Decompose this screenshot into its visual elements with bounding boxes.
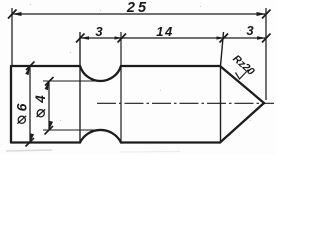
dia 6 dimension line <box>29 66 31 143</box>
svg-text:14: 14 <box>156 24 173 39</box>
cone lower slope <box>220 103 264 143</box>
svg-text:3: 3 <box>95 24 103 39</box>
faint scan smudge bottom-left <box>6 150 52 151</box>
part outline: head block <box>11 66 80 143</box>
arrow+tick at x=266 on dim line 2 <box>257 36 266 40</box>
svg-text:4: 4 <box>33 95 48 104</box>
dia6 bottom arrow <box>28 133 34 143</box>
dia 4 dimension line <box>48 81 50 130</box>
arrow+tick at x=80 <box>80 36 89 40</box>
roughness check mark on cone slope <box>236 70 249 80</box>
dia4 top arrow <box>45 80 51 90</box>
groove right edge line + extension to dim line <box>120 32 122 143</box>
arrow left of dim 25 <box>12 12 22 16</box>
extension line left (for 25) <box>11 8 13 66</box>
dia 4 label <box>33 95 48 117</box>
centerline (axis) <box>97 102 274 104</box>
svg-text:25: 25 <box>126 0 149 16</box>
tick left of dim 25 <box>8 10 17 19</box>
body bottom edge <box>121 141 220 143</box>
extension line right (for 25 and 3) <box>265 8 267 100</box>
dia 6 label <box>13 103 29 123</box>
dimension line 25 <box>12 13 266 15</box>
svg-text:3: 3 <box>246 23 254 38</box>
cone base edge line + extension to dim line <box>221 32 224 143</box>
svg-text:6: 6 <box>13 103 29 111</box>
dimension line 3-14-3 <box>80 37 266 39</box>
arrow right of dim 25 <box>257 12 267 16</box>
groove left edge line + extension to dim line <box>79 32 81 143</box>
groove top arc <box>80 66 121 81</box>
faint scan smudge bottom-mid <box>120 151 180 154</box>
dia 4 extension line top <box>43 80 101 82</box>
dia4 bottom arrow <box>47 121 53 131</box>
cone upper slope <box>220 66 264 103</box>
tick at x=220 <box>220 34 229 43</box>
tick right of dim 25 <box>262 10 271 19</box>
dia 4 extension line bottom <box>43 129 101 131</box>
groove bottom arc <box>80 130 121 143</box>
dia6 top arrow <box>25 65 31 75</box>
tick at x=121 <box>118 34 127 43</box>
faint speckles <box>30 4 251 121</box>
body top edge <box>121 65 220 67</box>
